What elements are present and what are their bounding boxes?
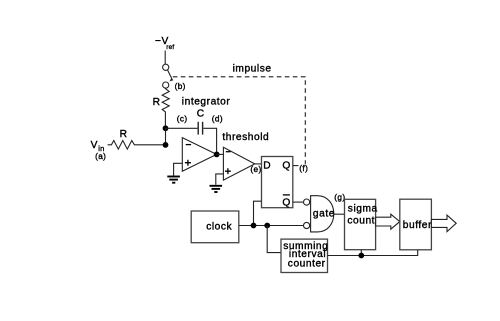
summing interval counter box (281, 239, 328, 272)
dashed impulse control line (173, 77, 305, 164)
resistor R2 (input, horizontal) (108, 141, 166, 150)
svg-text:ref: ref (166, 44, 174, 51)
wire U1 plus to ground (174, 163, 183, 175)
svg-text:(b): (b) (175, 82, 186, 91)
wire Qbar to gate bubble (293, 201, 304, 203)
wire dot1 to dot2 (165, 128, 167, 145)
wire Q output node (f) (293, 165, 299, 167)
gate U4 body (311, 196, 334, 232)
svg-text:integrator: integrator (182, 97, 231, 108)
buffer box (400, 199, 432, 250)
svg-text:impulse: impulse (233, 63, 272, 74)
clock box (191, 211, 239, 243)
junction dot summing net (358, 253, 364, 259)
bus arrow buffer output (431, 215, 456, 232)
svg-text:count: count (347, 215, 375, 226)
junction dot at integrator input (163, 142, 169, 148)
svg-text:buffer: buffer (403, 220, 432, 231)
wire capacitor to output node (203, 128, 216, 153)
gate input bubble top (304, 199, 310, 205)
U1 plus symbol (185, 160, 191, 166)
wire U2 output to D input (255, 163, 262, 165)
svg-text:(d): (d) (212, 115, 223, 124)
U1 minus symbol (186, 144, 191, 146)
wire dot to sigma count bottom (360, 250, 362, 256)
U2 plus symbol (225, 168, 231, 174)
ground GND1 (167, 177, 180, 183)
U2 minus symbol (226, 151, 231, 153)
svg-text:C: C (197, 109, 205, 120)
svg-text:(f): (f) (299, 164, 308, 173)
svg-text:(e): (e) (250, 165, 261, 174)
switch S1 (impulse controlled) (163, 64, 174, 88)
junction dot at U1 output (214, 152, 220, 158)
svg-text:V: V (91, 140, 98, 151)
junction dot clock/counter (264, 223, 270, 229)
sigma count box (345, 199, 376, 249)
svg-text:clock: clock (206, 222, 232, 233)
svg-text:counter: counter (288, 258, 326, 269)
D flip-flop U3 box (262, 157, 293, 208)
wire Vref to switch (164, 51, 166, 65)
wire gate output to sigma count (334, 213, 345, 215)
svg-text:D: D (263, 160, 271, 171)
resistor R1 (vertical, from switch) (162, 88, 169, 128)
svg-text:(c): (c) (177, 115, 188, 124)
svg-text:(g): (g) (334, 193, 345, 202)
wire to summing interval counter (267, 226, 281, 253)
svg-text:(a): (a) (95, 152, 106, 161)
svg-text:sigma: sigma (348, 203, 378, 214)
svg-text:Q: Q (282, 160, 290, 171)
bus arrow sigma count to buffer (376, 214, 400, 229)
svg-text:threshold: threshold (222, 132, 269, 143)
junction dot clock/ff (251, 223, 257, 229)
junction dot node (c) (163, 125, 169, 131)
svg-text:R: R (153, 97, 161, 108)
svg-text:Q: Q (282, 198, 290, 209)
svg-text:R: R (120, 129, 128, 140)
wire clock to flip-flop (254, 201, 262, 225)
wire U2 plus to ground (216, 174, 224, 185)
wire summing counter output net (328, 250, 418, 256)
wire clock net (239, 225, 304, 227)
capacitor C1 (198, 122, 202, 135)
svg-text:gate: gate (313, 208, 335, 219)
op-amp U1 integrator triangle (182, 138, 216, 172)
gate input bubble bottom (304, 222, 310, 228)
wire dot1 to capacitor (166, 127, 198, 129)
op-amp U2 threshold comparator triangle (223, 147, 254, 180)
wire U1 output to U2 (217, 153, 224, 155)
ground GND2 (210, 186, 223, 192)
